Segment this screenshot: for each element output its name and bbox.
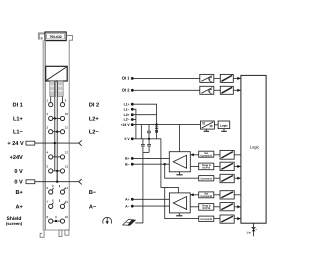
svg-text:DI 1: DI 1 [122, 76, 130, 81]
data bus arrows below logic [246, 223, 256, 236]
svg-text:6: 6 [46, 186, 48, 190]
contact legs [50, 81, 63, 97]
wire DI2 [132, 89, 200, 91]
box Set Current B [199, 192, 214, 198]
wire bypass [140, 125, 142, 139]
svg-text:2: 2 [46, 112, 48, 116]
terminal row 5 : pins 5/13 (0V) [46, 165, 68, 173]
ground DC/DC [204, 129, 209, 131]
svg-text:15: 15 [65, 200, 69, 204]
svg-text:L2−: L2− [89, 130, 100, 136]
module DIN-rail hook [39, 33, 46, 39]
terminal row 1 : pins 1/9 (DI1 DI2) [46, 98, 66, 106]
svg-text:8: 8 [46, 215, 48, 219]
svg-text:B+: B+ [15, 190, 23, 196]
wire Temp and OCP B links [214, 206, 220, 208]
box Current A [199, 176, 214, 181]
wire Current A links [214, 177, 220, 179]
svg-text:OCP A: OCP A [202, 167, 210, 170]
shield screen symbol [123, 219, 136, 225]
svg-text:L1−: L1− [13, 130, 24, 136]
box Temp and OCP B [199, 204, 214, 211]
wire A- [132, 205, 169, 207]
optocoupler Current A [220, 174, 234, 182]
svg-text:DI 1: DI 1 [13, 102, 23, 108]
svg-text:L1+: L1+ [13, 116, 24, 122]
DC/DC converter [201, 121, 215, 129]
svg-text:DI 2: DI 2 [122, 88, 130, 93]
wire B- [132, 163, 169, 165]
wire cap join [143, 151, 149, 153]
terminal row 7 : pins 7/15 (A+ A-) [46, 199, 68, 208]
wire A+ [132, 198, 169, 200]
svg-text:L2+: L2+ [89, 116, 100, 122]
optocoupler DI1 [220, 74, 233, 82]
wire L2+ [132, 114, 156, 116]
svg-text:L1−: L1− [124, 108, 130, 112]
wire DI1 to logic [214, 77, 221, 79]
terminal row 3 : pins 3/11 (L1- L2-) [46, 126, 68, 134]
svg-text:Logic: Logic [250, 145, 260, 150]
capacitor C3 [147, 139, 151, 153]
wire Temp and OCP A links [214, 165, 220, 167]
module right labels [89, 102, 100, 210]
svg-text:5: 5 [46, 165, 48, 169]
wire +24V [132, 124, 200, 126]
0V feed line with plug [26, 179, 82, 184]
optocoupler Temp and OCP B [220, 203, 234, 211]
wire L2- [132, 119, 136, 121]
row5 bus to 0V wire [56, 171, 58, 182]
ground op-amp B [176, 172, 182, 175]
svg-text:9: 9 [65, 98, 67, 102]
ground sub-logic [221, 129, 226, 132]
wire shield drop [135, 146, 143, 223]
wire Set Current B links [214, 194, 220, 196]
wire op-amp to Temp and OCP A [190, 165, 198, 167]
svg-text:1 In: 1 In [246, 231, 251, 234]
module left labels [6, 102, 24, 226]
capacitor C1 [147, 125, 151, 139]
module bottom-left foot [40, 230, 44, 237]
svg-text:0 V: 0 V [14, 180, 23, 186]
optocoupler Set Current A [220, 150, 234, 159]
svg-text:+24V: +24V [10, 155, 23, 161]
module body outline [43, 36, 73, 230]
optocoupler Current B [220, 215, 234, 223]
box Temp and OCP A [199, 163, 214, 170]
wire 0V [132, 139, 178, 193]
svg-text:14: 14 [65, 186, 69, 190]
svg-text:B+: B+ [125, 157, 129, 161]
wire B current tap [165, 164, 199, 178]
svg-text:(screen): (screen) [6, 221, 23, 226]
wire op-amp to Temp and OCP B [190, 206, 199, 208]
terminal row 6 : pins 6/14 (B+ B-) [46, 185, 68, 194]
capacitor C2 [141, 139, 145, 146]
svg-text:16: 16 [65, 215, 69, 219]
svg-text:Current B: Current B [200, 218, 212, 221]
svg-text:10: 10 [65, 112, 69, 116]
box Current B [199, 216, 214, 221]
svg-text:L2+: L2+ [124, 113, 130, 117]
svg-text:L1+: L1+ [124, 102, 130, 106]
svg-text:A−: A− [89, 204, 97, 210]
svg-text:750-632: 750-632 [49, 35, 62, 39]
suppressor diode Z1 [155, 125, 158, 139]
terminal row 4 : pins 4/12 (+24V) [46, 151, 68, 159]
svg-text:13: 13 [65, 165, 69, 169]
terminal row 2 : pins 2/10 (L1+ L2+) [46, 112, 68, 120]
svg-text:DI 2: DI 2 [89, 102, 99, 108]
svg-text:0 V: 0 V [125, 137, 131, 141]
svg-text:B−: B− [125, 162, 129, 166]
svg-text:A+: A+ [125, 198, 129, 202]
svg-text:Current A: Current A [200, 155, 212, 158]
svg-text:L2−: L2− [124, 118, 130, 122]
+24V feed line with plug [26, 140, 82, 145]
svg-text:12: 12 [65, 151, 69, 155]
svg-text:+ 24 V: + 24 V [7, 141, 24, 147]
wire DI1 [132, 77, 200, 79]
arrow Set Current A to op-amp [190, 154, 198, 156]
svg-text:1: 1 [46, 98, 48, 102]
wire DI2 to logic [214, 89, 221, 91]
wire DCDC to sub-logic [214, 124, 218, 126]
wire B+ [132, 157, 169, 159]
functional earth symbol [103, 217, 112, 224]
svg-text:3: 3 [46, 126, 48, 130]
svg-text:Logic: Logic [220, 124, 228, 128]
wire Current B links [214, 218, 220, 220]
optocoupler DI2 [220, 86, 233, 94]
op-amp driver B [169, 152, 190, 172]
svg-text:OCP B: OCP B [202, 207, 210, 210]
svg-text:0 V: 0 V [14, 169, 23, 175]
svg-text:A−: A− [125, 204, 129, 208]
wire Set Current A links [214, 154, 220, 156]
arrow Set Current B to op-amp [190, 194, 199, 196]
wire L1- [132, 109, 136, 139]
internal power bus lines [51, 81, 63, 182]
optocoupler Set Current B [220, 191, 234, 199]
op-amp driver A [169, 193, 190, 213]
input filter DI2 [200, 86, 214, 94]
logic sub box [218, 121, 230, 129]
svg-text:Current A: Current A [200, 177, 212, 180]
schematic rail labels [121, 76, 131, 209]
svg-text:+24 V: +24 V [121, 123, 131, 127]
svg-text:4: 4 [46, 151, 48, 155]
svg-text:B−: B− [89, 190, 97, 196]
module bottom-right feet [59, 230, 69, 237]
power contact box with diagonal [46, 66, 67, 81]
svg-text:7: 7 [46, 200, 48, 204]
module label box 750-632 [45, 32, 66, 41]
row8 stub [55, 216, 57, 218]
wire B supply [179, 125, 181, 152]
wire A current tap [165, 187, 199, 218]
box Set Current A [199, 151, 214, 157]
svg-text:A+: A+ [15, 204, 23, 210]
optocoupler Temp and OCP A [220, 162, 234, 170]
svg-text:Current B: Current B [200, 195, 212, 198]
ground op-amp A [176, 213, 182, 216]
wire L1+ [132, 104, 156, 124]
rail node dots [131, 77, 134, 208]
svg-text:11: 11 [65, 126, 68, 130]
logic main box [241, 75, 266, 223]
input filter DI1 [200, 74, 214, 82]
terminal row 8 : pins 8/16 (shield) [46, 215, 68, 223]
+24V to row4 wire [54, 143, 56, 157]
